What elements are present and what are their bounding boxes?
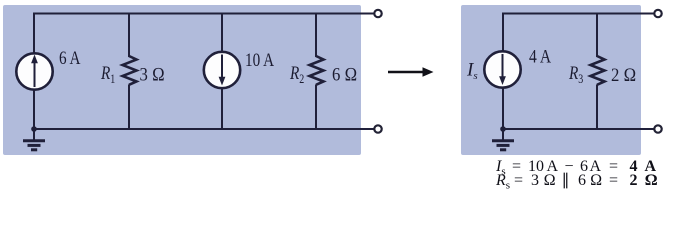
resistor R3 zigzag [591, 56, 605, 85]
ground (left circuit) [23, 126, 45, 150]
label R2 [289, 62, 304, 86]
wire: R3 top stub [596, 13, 598, 58]
wire: right bottom bus [503, 128, 654, 130]
6A source arrow (up) [31, 55, 38, 88]
10A source arrow (down) [219, 55, 226, 86]
svg-text:10 A: 10 A [245, 49, 275, 70]
wire: R2 top stub [315, 13, 317, 58]
wire: Is source top stub [502, 13, 504, 53]
wire: 6A source top stub [33, 13, 35, 55]
wire: R2 bottom stub [315, 85, 317, 130]
svg-text:6 Ω: 6 Ω [332, 64, 357, 85]
wire: 10A source top stub [221, 13, 223, 54]
wire: R3 bottom stub [596, 85, 598, 130]
wire: left bottom bus [34, 128, 374, 130]
terminal a' (right circuit top) [654, 10, 661, 17]
label 6 A [59, 47, 81, 68]
label 10 A [245, 49, 275, 70]
terminal b' (right circuit bottom) [654, 125, 661, 132]
wire: 10A source bottom stub [221, 88, 223, 129]
current source Is circle [484, 51, 520, 87]
right circuit panel [461, 5, 641, 155]
label 2 ohm [611, 64, 636, 85]
label 6 ohm [332, 64, 357, 85]
current source 10A circle [204, 52, 240, 88]
current source 6A circle [16, 53, 52, 89]
ground (right circuit) [492, 126, 514, 150]
wire: 6A source bottom stub [33, 89, 35, 129]
label 3 ohm [140, 64, 165, 85]
label 4 A [529, 46, 551, 67]
Is source arrow (down) [499, 54, 506, 85]
terminal b (left circuit bottom) [374, 125, 381, 132]
svg-text:4 A: 4 A [529, 46, 551, 67]
svg-text:2 Ω: 2 Ω [611, 64, 636, 85]
label R3 [568, 62, 583, 86]
wire: R1 top stub [128, 13, 130, 58]
left circuit panel [3, 5, 361, 155]
svg-text:3 Ω: 3 Ω [140, 64, 165, 85]
resistor R1 zigzag [123, 56, 137, 85]
transform arrow between circuits [388, 67, 434, 77]
terminal a (left circuit top) [374, 10, 381, 17]
wire: Is source bottom stub [502, 88, 504, 130]
wire: R1 bottom stub [128, 85, 130, 130]
label R1 [100, 62, 115, 86]
svg-text:Rs =3Ω∥6Ω=2Ω: Rs =3Ω∥6Ω=2Ω [495, 172, 657, 192]
resistor R2 zigzag [310, 56, 324, 85]
svg-text:6 A: 6 A [59, 47, 81, 68]
wire: right top bus [503, 13, 654, 15]
wire: left top bus [34, 13, 374, 15]
